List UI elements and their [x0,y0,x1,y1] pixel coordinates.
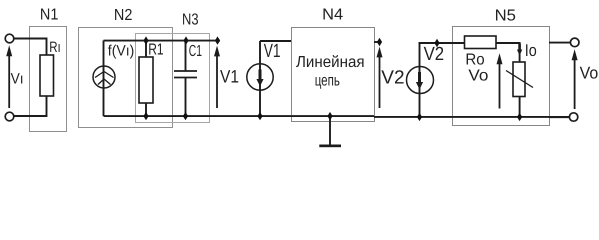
svg-text:Io: Io [525,41,537,60]
svg-text:V1: V1 [220,67,239,87]
svg-text:Ro: Ro [465,52,484,69]
svg-text:цепь: цепь [315,72,340,89]
svg-text:Vı: Vı [11,70,24,87]
svg-text:Vo: Vo [468,68,488,85]
svg-text:N5: N5 [495,7,516,24]
svg-text:f(Vı): f(Vı) [108,42,135,59]
svg-text:Rı: Rı [49,39,61,56]
svg-text:V2: V2 [381,68,404,89]
svg-text:Линейная: Линейная [296,54,365,71]
svg-text:V1: V1 [264,41,281,62]
svg-text:N1: N1 [40,7,59,24]
svg-text:R1: R1 [148,42,163,59]
svg-text:N4: N4 [322,7,343,24]
svg-text:N3: N3 [182,11,199,28]
svg-text:Vo: Vo [580,64,599,83]
svg-text:V2: V2 [424,44,445,65]
svg-text:N2: N2 [114,7,133,24]
svg-text:C1: C1 [189,43,202,60]
